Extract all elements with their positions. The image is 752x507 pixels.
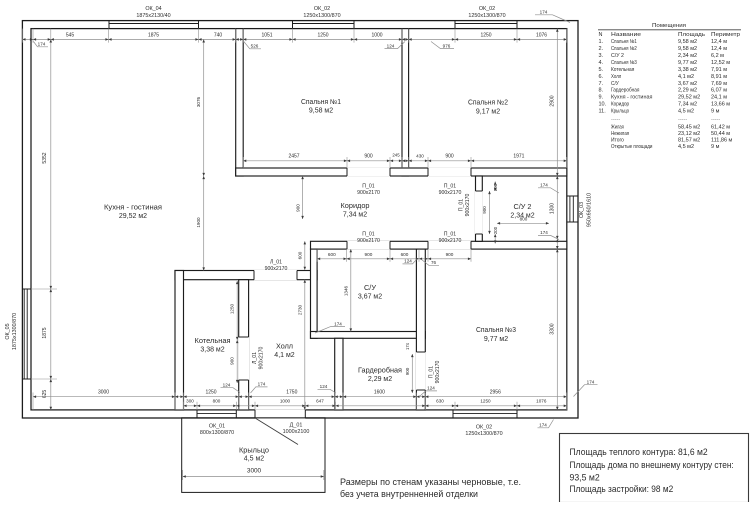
svg-text:ОК_02: ОК_02	[476, 424, 492, 430]
svg-text:4,5 м2: 4,5 м2	[678, 144, 694, 150]
svg-text:Площадь теплого контура: 81,6: Площадь теплого контура: 81,6 м2	[570, 447, 708, 457]
svg-text:Крыльцо: Крыльцо	[611, 109, 629, 115]
dim row bottom 2	[184, 405, 567, 407]
wall P8 bedroom1|bedroom2	[402, 29, 409, 176]
svg-text:7,69 м: 7,69 м	[711, 81, 727, 87]
svg-text:П_01: П_01	[362, 183, 374, 189]
svg-text:1346: 1346	[343, 285, 348, 296]
svg-text:900: 900	[230, 357, 235, 365]
window OK_05 (left wall)	[23, 289, 25, 379]
svg-text:29,52 м2: 29,52 м2	[678, 95, 700, 101]
svg-text:2,29 м2: 2,29 м2	[368, 376, 392, 383]
entrance door D_01 opening	[255, 409, 305, 418]
wall P4 bathroom left	[311, 249, 318, 338]
svg-text:1600: 1600	[374, 389, 385, 395]
svg-text:29,52 м2: 29,52 м2	[119, 213, 147, 220]
svg-text:Площадь застройки: 98 м2: Площадь застройки: 98 м2	[570, 484, 674, 494]
wall P1 kitchen|bedroom1	[236, 29, 244, 176]
svg-text:9,58 м2: 9,58 м2	[678, 39, 697, 45]
svg-text:1250: 1250	[205, 389, 216, 395]
svg-text:900х2170: 900х2170	[265, 266, 288, 272]
svg-text:Кухня - гостиная: Кухня - гостиная	[611, 95, 652, 101]
svg-text:8,91 м: 8,91 м	[711, 74, 727, 80]
wall W4 bathroom bottom	[311, 332, 426, 339]
svg-text:174: 174	[540, 10, 548, 15]
svg-text:П_01: П_01	[444, 231, 456, 237]
outer wall (exterior contour)	[22, 21, 578, 418]
wall W3 kitchen bottom	[175, 271, 317, 280]
leader 124 su-top	[403, 260, 417, 264]
svg-text:10.: 10.	[599, 102, 607, 108]
leader 174 corner-br	[574, 385, 598, 397]
svg-text:12,52 м: 12,52 м	[711, 60, 730, 66]
leader 174 hall	[251, 387, 268, 393]
svg-text:Холл: Холл	[611, 74, 621, 80]
svg-text:2.: 2.	[599, 46, 604, 52]
door opening kitchen-hall (in W3)	[254, 270, 297, 280]
door opening wardrobe (in P6)	[416, 352, 426, 390]
svg-text:6.: 6.	[599, 74, 604, 80]
svg-text:1300: 1300	[550, 203, 556, 214]
svg-text:900: 900	[482, 206, 487, 214]
svg-text:174: 174	[334, 321, 342, 326]
svg-text:900х2170: 900х2170	[439, 190, 462, 196]
svg-text:4,5 м2: 4,5 м2	[678, 109, 694, 115]
svg-text:П_01: П_01	[459, 199, 465, 211]
svg-text:Помещения: Помещения	[652, 23, 686, 29]
leader 124 boiler	[221, 388, 241, 393]
svg-text:П_01: П_01	[429, 366, 435, 378]
leader 174 bottom-right	[538, 420, 554, 428]
svg-text:1875х1300/870: 1875х1300/870	[12, 313, 18, 350]
svg-text:12,4 м: 12,4 м	[711, 46, 727, 52]
dim row y259	[317, 258, 471, 260]
svg-text:900: 900	[445, 153, 454, 159]
window OK_02 top-left	[293, 23, 355, 25]
window OK_03 (right wall)	[569, 196, 571, 222]
dim row bedrooms y161	[243, 160, 567, 162]
svg-text:Спальня №2: Спальня №2	[468, 99, 508, 106]
svg-text:300: 300	[186, 399, 194, 404]
svg-text:1250: 1250	[480, 399, 491, 404]
svg-text:Спальня №3: Спальня №3	[476, 327, 516, 334]
window OK_04 (top)	[109, 23, 199, 25]
svg-text:1875х2130/40: 1875х2130/40	[136, 13, 170, 19]
svg-text:Размеры по стенам указаны черн: Размеры по стенам указаны черновые, т.е.	[340, 477, 521, 488]
svg-text:ОК_02: ОК_02	[479, 6, 495, 12]
dim row top	[22, 38, 566, 40]
leader 124 hall-b	[318, 389, 337, 393]
svg-text:П_01: П_01	[444, 183, 456, 189]
svg-text:1000: 1000	[280, 399, 291, 404]
svg-text:600: 600	[297, 251, 302, 259]
svg-text:6,07 м: 6,07 м	[711, 88, 727, 94]
svg-text:9,77 м2: 9,77 м2	[678, 60, 697, 66]
svg-text:1250: 1250	[317, 33, 328, 39]
porch outline	[182, 418, 325, 493]
leader 526	[244, 42, 261, 49]
svg-text:61,42 м: 61,42 м	[711, 124, 730, 130]
svg-text:9 м: 9 м	[711, 144, 720, 150]
svg-text:174: 174	[405, 342, 410, 350]
wall W1 corridor top	[236, 168, 567, 176]
svg-text:С/У: С/У	[364, 285, 377, 292]
svg-text:Площадь дома по внешнему конту: Площадь дома по внешнему контуру стен:	[570, 460, 734, 470]
svg-text:11.: 11.	[599, 109, 607, 115]
svg-text:9,58 м2: 9,58 м2	[678, 46, 697, 52]
wall P5 wardrobe left	[335, 338, 343, 410]
leader 174 top-left	[34, 42, 49, 47]
svg-text:Жилая: Жилая	[611, 124, 624, 130]
svg-text:600: 600	[401, 252, 409, 257]
door opening bedroom2 (in W1)	[428, 167, 471, 176]
dim 200 upper	[494, 182, 496, 192]
svg-text:13,66 м: 13,66 м	[711, 102, 730, 108]
svg-text:111,86 м: 111,86 м	[711, 138, 733, 144]
svg-text:174: 174	[539, 423, 547, 428]
entrance door D_01 swing leaf	[256, 418, 299, 444]
dim 900 bath2 door	[489, 191, 491, 234]
svg-text:5352: 5352	[42, 152, 48, 163]
svg-text:174: 174	[38, 42, 46, 47]
svg-text:1250: 1250	[480, 33, 491, 39]
svg-text:976: 976	[443, 43, 451, 48]
svg-text:900х2170: 900х2170	[357, 238, 380, 244]
svg-text:7,91 м: 7,91 м	[711, 67, 727, 73]
svg-text:1.: 1.	[599, 39, 604, 45]
svg-text:Котельная: Котельная	[611, 67, 634, 73]
svg-text:Спальня №2: Спальня №2	[611, 46, 637, 52]
outer wall inner face	[31, 29, 567, 410]
rooms table rule	[598, 29, 741, 31]
svg-text:647: 647	[316, 399, 324, 404]
svg-text:ОК_05: ОК_05	[5, 323, 11, 339]
dim row bottom 1	[33, 396, 567, 398]
svg-text:900: 900	[446, 252, 454, 257]
window OK_02 top-right	[455, 23, 517, 25]
wall P2 boiler-room left	[175, 271, 184, 411]
dim 600 vertical x305	[304, 241, 306, 270]
svg-text:1250: 1250	[230, 303, 235, 314]
leader 124 wardrobe	[420, 391, 437, 396]
svg-text:24,1 м: 24,1 м	[711, 95, 727, 101]
svg-text:-----: -----	[678, 116, 687, 122]
svg-text:800: 800	[213, 399, 221, 404]
svg-text:4,1 м2: 4,1 м2	[678, 74, 694, 80]
svg-text:2457: 2457	[288, 153, 299, 159]
svg-text:Коридор: Коридор	[341, 203, 370, 210]
svg-text:124: 124	[404, 259, 412, 264]
svg-text:900х2170: 900х2170	[465, 193, 471, 216]
svg-text:1076: 1076	[536, 33, 547, 39]
wall P3 boiler|hall	[239, 280, 249, 410]
svg-text:Периметр: Периметр	[711, 32, 740, 38]
svg-text:Нежилая: Нежилая	[611, 131, 629, 137]
leader 174 right-b	[538, 235, 559, 239]
svg-text:1000х2100: 1000х2100	[283, 429, 310, 435]
svg-text:174: 174	[587, 380, 595, 385]
svg-text:3,38 м2: 3,38 м2	[200, 347, 224, 354]
leader 76 su-top	[422, 260, 440, 266]
svg-text:3,67 м2: 3,67 м2	[358, 294, 382, 301]
svg-text:950х660/1610: 950х660/1610	[587, 193, 593, 227]
svg-text:900х2170: 900х2170	[439, 238, 462, 244]
svg-text:630: 630	[436, 399, 444, 404]
svg-text:Гардеробная: Гардеробная	[358, 366, 402, 374]
door opening bedroom3 (in W2)	[428, 241, 471, 250]
svg-text:Л_01: Л_01	[270, 259, 282, 265]
leader 174 top-right	[535, 15, 570, 23]
svg-text:50,44 м: 50,44 м	[711, 131, 730, 137]
svg-text:2,34 м2: 2,34 м2	[510, 213, 534, 220]
svg-text:1000: 1000	[371, 33, 382, 39]
svg-text:1250х1300/870: 1250х1300/870	[465, 431, 502, 437]
svg-text:Спальня №3: Спальня №3	[611, 60, 637, 66]
svg-text:200: 200	[493, 183, 498, 191]
svg-text:1875: 1875	[148, 33, 159, 39]
svg-text:526: 526	[251, 44, 259, 49]
leader 174 right-a	[538, 188, 559, 193]
svg-text:С/У 2: С/У 2	[514, 204, 532, 211]
dim column kitchen x204	[203, 39, 205, 270]
door opening boiler room (in P3)	[238, 337, 249, 380]
svg-text:900: 900	[295, 204, 300, 212]
wall P6 wardrobe|bedroom3	[416, 249, 425, 410]
svg-text:П_01: П_01	[362, 231, 374, 237]
svg-text:174: 174	[540, 230, 548, 235]
svg-text:1250х1300/870: 1250х1300/870	[303, 13, 340, 19]
svg-text:900: 900	[364, 252, 372, 257]
svg-text:4,1 м2: 4,1 м2	[274, 352, 294, 359]
svg-text:3076: 3076	[196, 96, 201, 107]
svg-text:1250х1300/870: 1250х1300/870	[468, 13, 505, 19]
svg-text:740: 740	[214, 33, 223, 39]
dim 900 vertical x302	[302, 176, 304, 219]
svg-text:76: 76	[431, 260, 437, 265]
svg-text:12,4 м: 12,4 м	[711, 39, 727, 45]
door opening bedroom1 (in W1)	[347, 167, 390, 176]
svg-text:3.: 3.	[599, 53, 604, 59]
dim 2730 hall right	[304, 280, 306, 410]
svg-text:124: 124	[223, 383, 231, 388]
svg-text:7.: 7.	[599, 81, 604, 87]
svg-text:Спальня №1: Спальня №1	[301, 99, 341, 106]
svg-text:3300: 3300	[550, 323, 556, 334]
svg-text:9 м: 9 м	[711, 109, 720, 115]
svg-text:Крыльцо: Крыльцо	[239, 447, 269, 454]
svg-text:9,58 м2: 9,58 м2	[309, 108, 333, 115]
svg-text:Гардеробная: Гардеробная	[611, 88, 639, 94]
svg-text:Спальня №1: Спальня №1	[611, 39, 637, 45]
svg-text:без учета внутренненней отделк: без учета внутренненней отделки	[340, 489, 478, 500]
svg-text:93,5 м2: 93,5 м2	[570, 473, 600, 483]
door opening bathroom2 (in P7)	[475, 191, 483, 234]
svg-text:174: 174	[540, 183, 548, 188]
leader 174 su	[315, 327, 345, 333]
svg-text:С/У: С/У	[611, 81, 619, 87]
svg-text:58,45 м2: 58,45 м2	[678, 124, 700, 130]
info box frame	[560, 434, 749, 503]
svg-text:900: 900	[405, 367, 410, 375]
svg-text:Д_01: Д_01	[290, 422, 303, 428]
wall W2 corridor bottom	[311, 241, 567, 249]
svg-text:124: 124	[320, 384, 328, 389]
svg-text:81,57 м2: 81,57 м2	[678, 138, 700, 144]
svg-text:545: 545	[66, 33, 75, 39]
svg-text:ОК_03: ОК_03	[579, 202, 585, 218]
svg-text:800х1300/870: 800х1300/870	[200, 430, 234, 436]
svg-text:3000: 3000	[247, 468, 262, 475]
dim 800 bath2	[497, 222, 549, 224]
svg-text:N: N	[599, 32, 603, 38]
svg-text:-----: -----	[611, 116, 620, 122]
svg-text:ОК_02: ОК_02	[314, 6, 330, 12]
svg-text:200: 200	[493, 226, 498, 234]
wall P7 bathroom2 left	[476, 176, 483, 241]
svg-text:Коридор: Коридор	[611, 102, 629, 108]
svg-text:3000: 3000	[98, 389, 109, 395]
svg-text:430: 430	[416, 153, 424, 158]
svg-text:245: 245	[392, 152, 400, 157]
svg-text:Итого: Итого	[611, 138, 624, 144]
svg-text:ОК_01: ОК_01	[209, 423, 225, 429]
svg-text:900х2170: 900х2170	[435, 360, 441, 383]
svg-text:9,17 м2: 9,17 м2	[476, 108, 500, 115]
svg-text:2,29 м2: 2,29 м2	[678, 88, 697, 94]
svg-text:600: 600	[328, 252, 336, 257]
window OK_02 bottom	[453, 413, 517, 415]
svg-text:8.: 8.	[599, 88, 604, 94]
svg-text:7,34 м2: 7,34 м2	[678, 102, 697, 108]
dim 3000 porch	[183, 476, 324, 478]
svg-text:124: 124	[387, 43, 395, 48]
svg-text:1971: 1971	[513, 153, 524, 159]
svg-text:4.: 4.	[599, 60, 604, 66]
svg-text:Открытые площади: Открытые площади	[611, 144, 652, 150]
svg-text:900х2170: 900х2170	[259, 346, 265, 369]
svg-text:1076: 1076	[536, 399, 547, 404]
svg-text:5.: 5.	[599, 67, 604, 73]
leader 976	[431, 42, 454, 49]
svg-text:174: 174	[258, 382, 266, 387]
svg-text:4,5 м2: 4,5 м2	[244, 456, 264, 463]
svg-text:1750: 1750	[286, 389, 297, 395]
svg-text:Название: Название	[611, 32, 641, 38]
dim column right	[556, 29, 558, 410]
svg-text:9.: 9.	[599, 95, 604, 101]
dim column boiler x237	[236, 281, 238, 383]
dim column left	[50, 39, 52, 410]
dim 1346 bathroom	[350, 249, 352, 331]
svg-text:1875: 1875	[42, 327, 48, 338]
svg-text:ОК_04: ОК_04	[145, 6, 161, 12]
svg-text:Площадь: Площадь	[678, 32, 705, 38]
svg-text:1051: 1051	[261, 33, 272, 39]
svg-text:7,34 м2: 7,34 м2	[343, 212, 367, 219]
svg-text:124: 124	[427, 386, 435, 391]
svg-text:1900: 1900	[196, 217, 201, 228]
svg-text:2956: 2956	[490, 389, 501, 395]
leader 124 top	[385, 42, 406, 49]
svg-text:9,77 м2: 9,77 м2	[484, 336, 508, 343]
svg-text:С/У 2: С/У 2	[611, 53, 624, 59]
door opening bathroom (in W2)	[347, 241, 390, 250]
dim 200 lower	[494, 234, 496, 244]
svg-text:3,67 м2: 3,67 м2	[678, 81, 697, 87]
svg-text:900: 900	[364, 153, 373, 159]
svg-text:23,12 м2: 23,12 м2	[678, 131, 700, 137]
svg-text:3,38 м2: 3,38 м2	[678, 67, 697, 73]
svg-text:Котельная: Котельная	[195, 338, 231, 345]
dim 900 wardrobe door	[411, 354, 413, 393]
svg-text:Кухня - гостиная: Кухня - гостиная	[104, 204, 162, 211]
svg-text:900х2170: 900х2170	[357, 190, 380, 196]
svg-text:2900: 2900	[550, 95, 556, 106]
svg-text:6,2 м: 6,2 м	[711, 53, 724, 59]
svg-text:Холл: Холл	[276, 343, 293, 350]
svg-text:2730: 2730	[297, 304, 302, 315]
svg-text:2,34 м2: 2,34 м2	[678, 53, 697, 59]
svg-text:-----: -----	[711, 116, 720, 122]
window OK_01 (bottom wall)	[197, 413, 236, 415]
svg-text:Л_01: Л_01	[252, 352, 258, 364]
